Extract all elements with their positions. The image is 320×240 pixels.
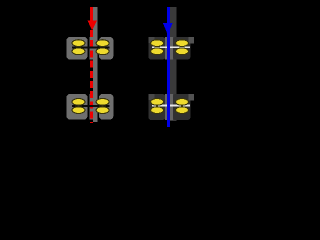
RIGHT bottom cluster: light middle strip — [165, 94, 173, 120]
RIGHT top cluster: right light corner block — [189, 37, 195, 44]
RIGHT top cluster: white connector line — [152, 46, 190, 48]
LEFT bottom cluster: left gray patch — [67, 94, 88, 120]
RIGHT blue arrowhead (down) — [163, 23, 173, 35]
RIGHT bottom cluster: right dark patch — [173, 94, 191, 120]
LEFT top cluster: black connector line — [72, 47, 110, 49]
LEFT top cluster: tubulin dimer ellipses — [72, 40, 109, 55]
LEFT microtubule: gray protofilament line — [93, 7, 97, 122]
LEFT top cluster: middle gray strip — [90, 37, 98, 60]
RIGHT top cluster: left light corner block — [148, 37, 154, 43]
LEFT bottom cluster: middle gray strip — [90, 94, 98, 120]
RIGHT bottom cluster: left light corner block — [148, 94, 154, 100]
LEFT red dashed line below arrow — [90, 30, 93, 123]
LEFT top cluster: left gray patch — [67, 37, 88, 60]
LEFT bottom cluster: black connector line — [72, 105, 110, 107]
RIGHT bottom cluster: white connector line — [152, 105, 190, 107]
RIGHT bottom cluster: right light corner block — [189, 94, 195, 101]
RIGHT microtubule: dark gray protofilament line — [170, 7, 176, 121]
RIGHT bottom cluster: left dark patch — [148, 94, 165, 120]
LEFT bottom cluster: tubulin dimer ellipses — [72, 99, 109, 114]
LEFT red arrowhead (down) — [87, 21, 97, 31]
LEFT red line: solid top segment — [90, 7, 93, 22]
LEFT top cluster: right gray patch — [99, 37, 113, 60]
RIGHT bottom cluster: tubulin dimer ellipses — [151, 99, 189, 114]
RIGHT top cluster: left dark patch — [148, 37, 165, 60]
RIGHT top cluster: tubulin dimer ellipses — [151, 40, 189, 55]
RIGHT blue line: solid full length — [167, 7, 170, 127]
LEFT bottom cluster: right gray patch — [99, 94, 113, 120]
RIGHT top cluster: light middle strip — [165, 37, 173, 60]
RIGHT top cluster: right dark patch — [173, 37, 191, 60]
